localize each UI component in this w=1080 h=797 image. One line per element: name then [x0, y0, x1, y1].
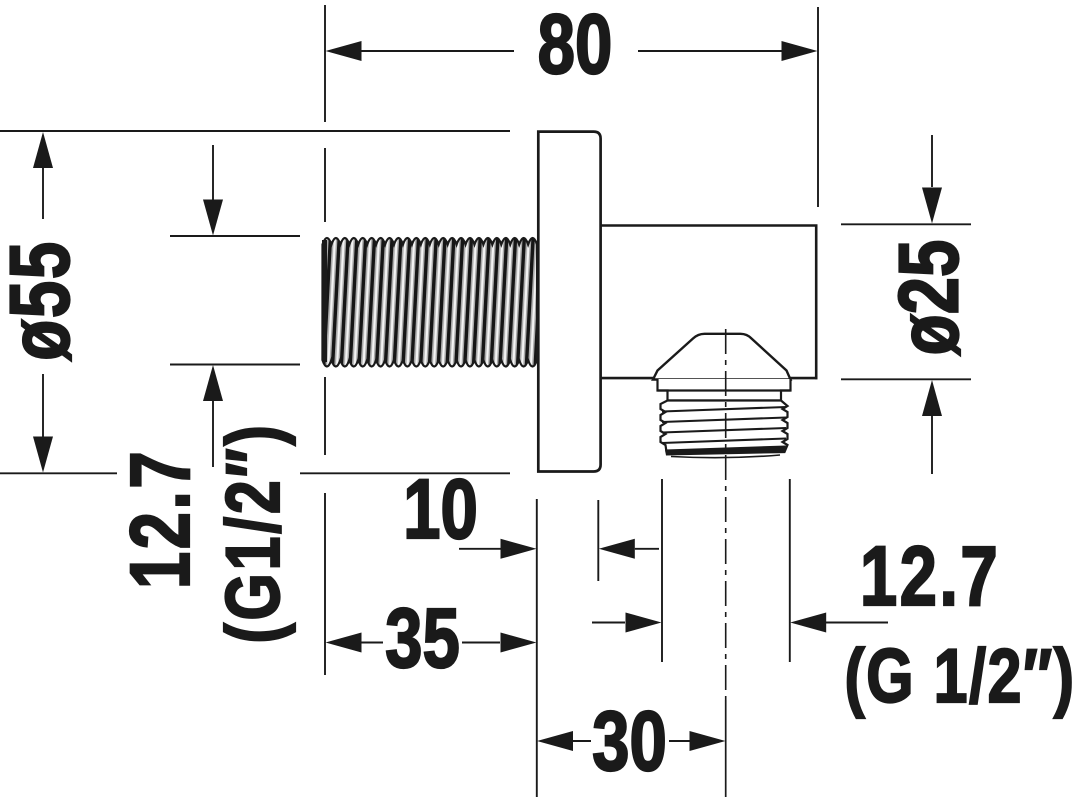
threaded inlet pipe	[322, 238, 537, 367]
centerline	[725, 329, 727, 797]
extension line nipple right x=790	[789, 479, 791, 662]
extension line body right x=818	[817, 7, 819, 207]
body	[598, 225, 818, 380]
svg-text:12.7: 12.7	[860, 530, 1000, 624]
dimension 30 bottom	[537, 695, 726, 789]
extension line nipple left x=662	[661, 479, 663, 662]
extension line body top y=224	[841, 223, 971, 225]
svg-text:35: 35	[385, 592, 460, 686]
holder dome	[653, 334, 791, 380]
dimension diameter 25 right	[882, 135, 976, 474]
outlet thread	[661, 401, 788, 458]
dimension 80 top	[326, 0, 818, 92]
svg-text:10: 10	[403, 463, 478, 557]
svg-text:(G1/2″): (G1/2″)	[211, 422, 296, 643]
extension line pipe bottom y=364.5	[170, 364, 300, 366]
extension line body bottom y=379	[841, 378, 971, 380]
extension line pipe top y=236	[170, 235, 300, 237]
svg-text:80: 80	[538, 0, 613, 92]
dimension 10 flange thickness	[403, 463, 659, 559]
extension line flange left x=537	[536, 499, 538, 797]
extension line pipe left x=325	[324, 5, 326, 675]
svg-text:ø55: ø55	[0, 240, 87, 361]
dimension 35	[326, 592, 537, 686]
extension line flange top y=131	[0, 130, 510, 132]
dimension 12.7 G1/2 pipe left	[114, 145, 296, 644]
extension line flange right x=598	[597, 500, 599, 581]
svg-text:12.7: 12.7	[114, 449, 208, 589]
extension line flange bottom y=473	[0, 472, 510, 474]
dimension 12.7 G1/2 outlet right	[592, 530, 1076, 719]
wall flange	[538, 132, 600, 472]
svg-text:ø25: ø25	[882, 240, 976, 356]
collar	[658, 379, 791, 401]
svg-text:(G 1/2″): (G 1/2″)	[844, 634, 1075, 719]
svg-text:30: 30	[592, 695, 667, 789]
dimension diameter 55 left	[0, 132, 87, 473]
